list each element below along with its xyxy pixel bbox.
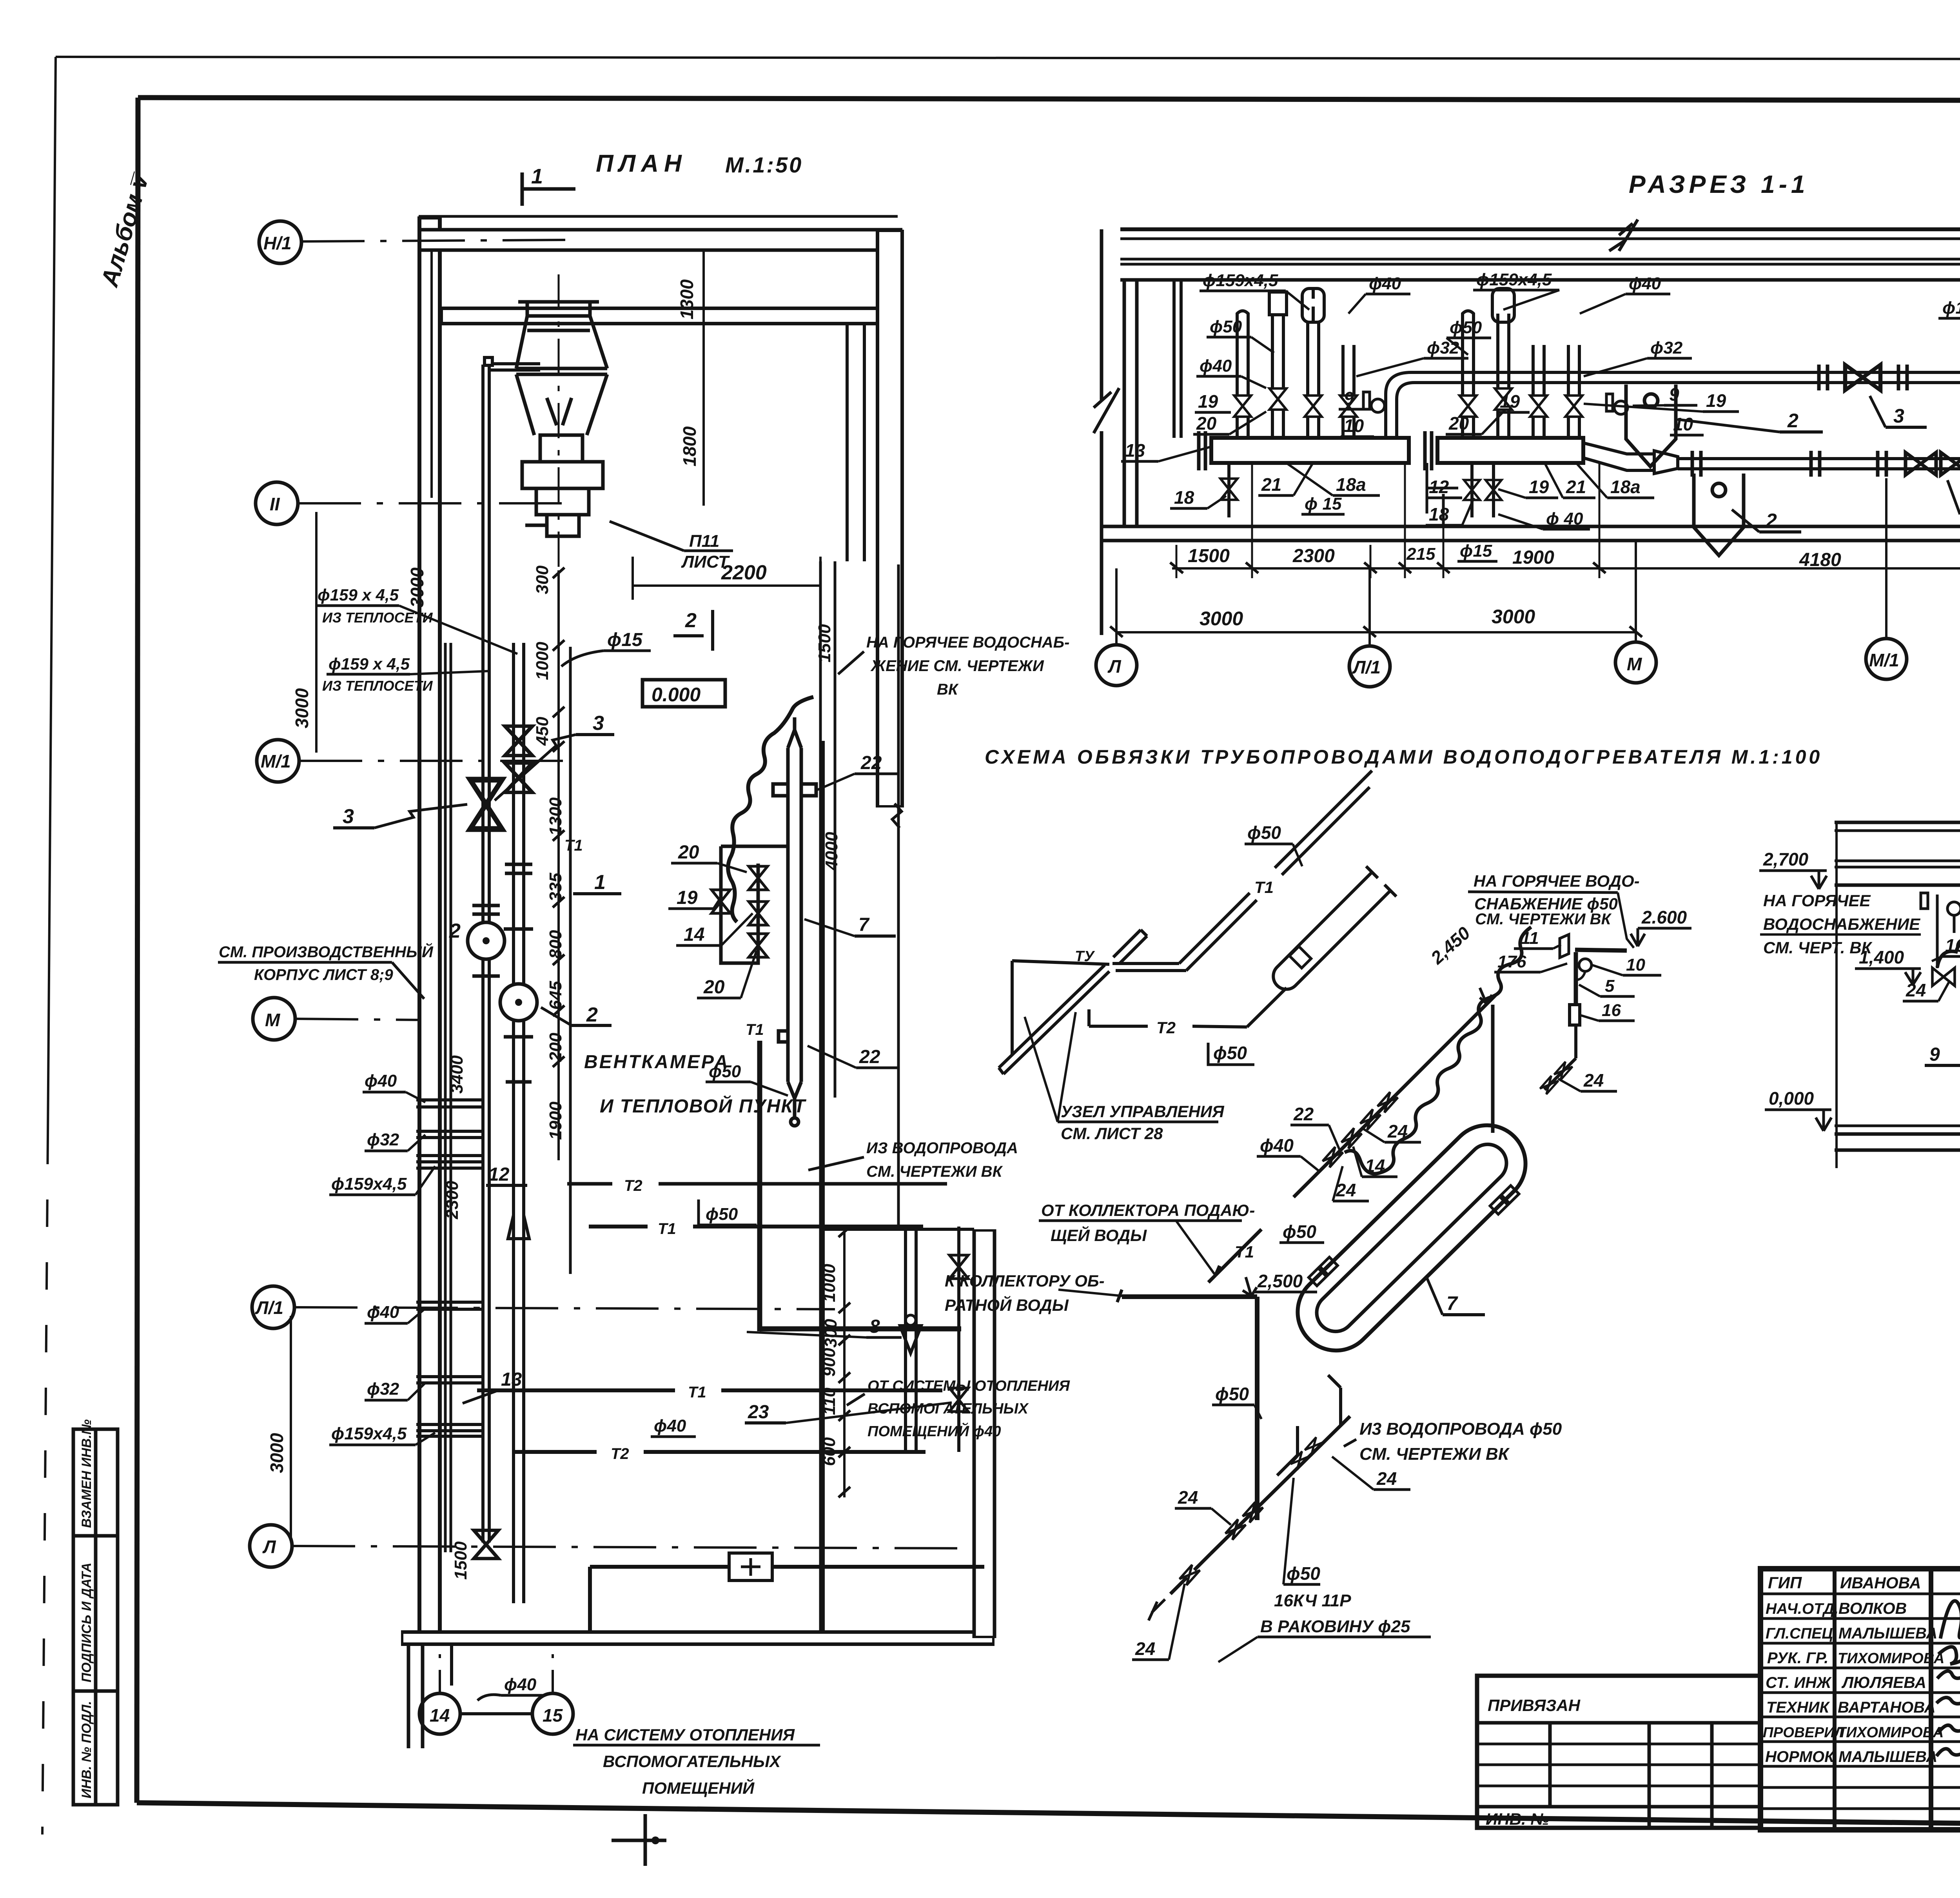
inner wall vertical [822, 741, 825, 1632]
horizontal to left [1112, 962, 1179, 965]
svg-text:13: 13 [501, 1369, 522, 1390]
svg-text:ϕ159 х4,5: ϕ159 х4,5 [1942, 298, 1960, 318]
svg-text:1000: 1000 [533, 642, 552, 680]
svg-text:19: 19 [1706, 390, 1726, 411]
svg-text:2,500: 2,500 [1257, 1271, 1303, 1291]
bottom right dim chain [843, 1232, 846, 1497]
dim chain along pipes [557, 570, 560, 1160]
section cut mark 1 (top) [522, 172, 575, 206]
wall top edge line [419, 215, 898, 218]
svg-text:22: 22 [1293, 1104, 1314, 1124]
svg-text:ϕ40: ϕ40 [1369, 274, 1401, 293]
wall connector line [823, 1228, 974, 1231]
svg-text:1900: 1900 [546, 1101, 565, 1140]
dim chain inside shaft [443, 1055, 470, 1580]
svg-text:И ТЕПЛОВОЙ ПУНКТ: И ТЕПЛОВОЙ ПУНКТ [600, 1095, 806, 1117]
svg-text:14: 14 [430, 1705, 450, 1726]
svg-text:РАЗРЕЗ 1-1: РАЗРЕЗ 1-1 [1629, 170, 1809, 198]
svg-text:450: 450 [533, 717, 552, 746]
wavy insulated pipe [1937, 900, 1960, 967]
svg-text:1300: 1300 [677, 279, 697, 319]
risers manifold1 [1237, 289, 1354, 438]
svg-text:10: 10 [1344, 416, 1364, 436]
heater item 7 (stadium) [1278, 1105, 1545, 1370]
svg-text:20: 20 [1448, 413, 1469, 434]
svg-text:ϕ 40: ϕ 40 [1546, 509, 1583, 528]
svg-text:ЛЮЛЯЕВА: ЛЮЛЯЕВА [1841, 1673, 1926, 1691]
outer left dashed lower [42, 1137, 48, 1834]
svg-text:НА СИСТЕМУ ОТОПЛЕНИЯ: НА СИСТЕМУ ОТОПЛЕНИЯ [575, 1726, 795, 1744]
svg-text:Т1: Т1 [1235, 1243, 1254, 1261]
svg-text:19: 19 [1529, 477, 1549, 497]
svg-text:ВАРТАНОВА: ВАРТАНОВА [1838, 1699, 1935, 1716]
svg-text:ϕ40: ϕ40 [1260, 1135, 1294, 1156]
svg-text:24: 24 [1178, 1487, 1198, 1508]
svg-text:600: 600 [820, 1437, 839, 1466]
svg-text:НОРМОК: НОРМОК [1765, 1748, 1835, 1766]
svg-text:18: 18 [1174, 487, 1194, 508]
svg-text:1300: 1300 [546, 797, 565, 836]
svg-text:ϕ40: ϕ40 [654, 1416, 686, 1435]
svg-text:ЩЕЙ ВОДЫ: ЩЕЙ ВОДЫ [1051, 1225, 1147, 1245]
svg-text:СНАБЖЕНИЕ ϕ50: СНАБЖЕНИЕ ϕ50 [1474, 895, 1618, 913]
outer thin border left [48, 57, 56, 1137]
svg-text:3: 3 [1893, 405, 1904, 427]
svg-text:ϕ159 х 4,5: ϕ159 х 4,5 [328, 655, 410, 673]
left column pair [1123, 280, 1126, 526]
svg-text:3000: 3000 [1200, 608, 1243, 630]
signatures scribbles [1936, 1587, 1960, 1760]
svg-text:ИВАНОВА: ИВАНОВА [1840, 1574, 1921, 1592]
svg-text:Т2: Т2 [624, 1177, 642, 1194]
svg-text:ϕ159х4,5: ϕ159х4,5 [331, 1424, 407, 1443]
svg-text:ГИП: ГИП [1768, 1573, 1802, 1592]
valve lower on pair A [474, 1530, 498, 1559]
svg-text:19: 19 [1500, 391, 1520, 412]
svg-text:24: 24 [1376, 1468, 1397, 1489]
svg-text:СМ. ЛИСТ 28: СМ. ЛИСТ 28 [1061, 1124, 1163, 1143]
svg-text:16: 16 [1602, 1001, 1621, 1020]
svg-text:М.1:50: М.1:50 [725, 152, 803, 177]
svg-text:СМ. ЧЕРТЕЖИ ВК: СМ. ЧЕРТЕЖИ ВК [1359, 1444, 1510, 1464]
svg-text:Л: Л [262, 1537, 276, 1557]
svg-text:НА ГОРЯЧЕЕ ВОДО-: НА ГОРЯЧЕЕ ВОДО- [1474, 872, 1640, 890]
valves pair on B [505, 726, 532, 756]
gauge left [1921, 893, 1928, 909]
bottom section flag [644, 1814, 647, 1866]
svg-text:0.000: 0.000 [652, 684, 701, 706]
svg-text:18а: 18а [1610, 477, 1641, 497]
heater column (plan item 7) [773, 717, 816, 1126]
floor lines [1835, 1125, 1960, 1127]
svg-text:ϕ159х4,5: ϕ159х4,5 [1476, 270, 1552, 289]
svg-text:ВСПОМОГАТЕЛЬНЫХ: ВСПОМОГАТЕЛЬНЫХ [867, 1401, 1029, 1417]
svg-text:24: 24 [1387, 1121, 1408, 1141]
branch to vodoprovod [1277, 1375, 1341, 1475]
left rotated stamp table [73, 1429, 118, 1805]
svg-text:14: 14 [1365, 1156, 1385, 1176]
fan unit centerline [558, 274, 560, 588]
svg-text:24: 24 [1135, 1639, 1155, 1659]
svg-text:18: 18 [1429, 504, 1449, 524]
svg-text:М/1: М/1 [261, 751, 291, 771]
svg-text:20: 20 [678, 842, 699, 863]
small box on T2 bottom [729, 1553, 772, 1580]
gauge item 10 [1579, 959, 1592, 971]
fan feed pipe elbow [485, 357, 540, 370]
svg-text:0,000: 0,000 [1769, 1088, 1814, 1109]
branch stubs upper cluster [416, 1100, 483, 1168]
svg-text:1900: 1900 [1512, 547, 1554, 568]
T2 line [1087, 1009, 1091, 1026]
left wall lower stubs [407, 1644, 410, 1748]
hairpin loop [1273, 872, 1390, 989]
svg-text:ϕ32: ϕ32 [367, 1130, 399, 1149]
left edge wall [1100, 229, 1103, 400]
extension verticals [1835, 822, 1838, 1168]
svg-text:1500: 1500 [1188, 546, 1230, 566]
wall right upper (double) [876, 230, 904, 807]
svg-text:Т1: Т1 [746, 1021, 764, 1038]
extension verticals dim1 [1176, 463, 1599, 578]
svg-text:2: 2 [586, 1003, 598, 1026]
svg-text:1: 1 [594, 871, 606, 894]
svg-text:24: 24 [1583, 1070, 1604, 1091]
lower cone fitting on B [508, 1215, 529, 1239]
svg-text:ОТ КОЛЛЕКТОРА ПОДАЮ-: ОТ КОЛЛЕКТОРА ПОДАЮ- [1041, 1201, 1255, 1219]
svg-text:2: 2 [1787, 410, 1798, 432]
big wavy scan curve [1345, 927, 1531, 1174]
svg-text:3: 3 [343, 805, 354, 828]
svg-text:645: 645 [546, 981, 565, 1010]
funnel item 8 [906, 1315, 916, 1325]
svg-text:ИНВ. №: ИНВ. № [1486, 1810, 1549, 1828]
svg-text:Л: Л [1107, 656, 1122, 677]
fan dims right [702, 251, 705, 506]
svg-text:П11: П11 [689, 532, 719, 551]
wall left (double) [417, 216, 442, 1644]
svg-text:9: 9 [1344, 388, 1354, 408]
svg-text:РАТНОЙ ВОДЫ: РАТНОЙ ВОДЫ [945, 1295, 1069, 1314]
svg-text:ϕ15: ϕ15 [607, 630, 643, 650]
svg-text:ϕ32: ϕ32 [1427, 338, 1459, 357]
svg-text:ϕ40: ϕ40 [1200, 356, 1232, 376]
svg-text:2: 2 [685, 609, 697, 632]
lower-left tail [1165, 1553, 1211, 1599]
pump 1 [468, 922, 505, 959]
return header: horizontal + vertical drop [1122, 1294, 1257, 1299]
svg-text:19: 19 [1198, 391, 1218, 412]
drain manifold2 [1470, 463, 1474, 517]
svg-text:ТУ: ТУ [1075, 948, 1095, 965]
svg-text:215: 215 [1406, 544, 1436, 564]
svg-text:Т2: Т2 [611, 1445, 629, 1463]
flanges on pipes [472, 864, 533, 1082]
svg-text:РУК. ГР.: РУК. ГР. [1767, 1649, 1828, 1667]
svg-text:16: 16 [1945, 935, 1960, 956]
svg-text:ϕ159х4,5: ϕ159х4,5 [331, 1174, 407, 1194]
left wall stub [1172, 280, 1176, 438]
svg-text:ϕ50: ϕ50 [1287, 1563, 1320, 1584]
vertical risers right room [904, 1229, 907, 1452]
svg-text:СМ. ЧЕРТЕЖИ ВК: СМ. ЧЕРТЕЖИ ВК [866, 1163, 1003, 1180]
svg-text:СМ. ПРОИЗВОДСТВЕННЫЙ: СМ. ПРОИЗВОДСТВЕННЫЙ [219, 942, 434, 961]
svg-text:МАЛЫШЕВА: МАЛЫШЕВА [1838, 1748, 1937, 1766]
svg-text:2: 2 [1766, 510, 1777, 532]
svg-text:20: 20 [1196, 413, 1217, 434]
svg-text:ГЛ.СПЕЦ.: ГЛ.СПЕЦ. [1766, 1625, 1837, 1642]
axis circle L [250, 1525, 292, 1567]
svg-text:ϕ50: ϕ50 [709, 1062, 741, 1081]
svg-text:СТ. ИНЖ: СТ. ИНЖ [1766, 1674, 1832, 1691]
svg-text:ϕ50: ϕ50 [706, 1205, 738, 1224]
svg-text:2: 2 [449, 920, 461, 942]
svg-text:15: 15 [543, 1705, 563, 1726]
svg-text:НАЧ.ОТД.: НАЧ.ОТД. [1766, 1600, 1838, 1617]
svg-text:КОРПУС ЛИСТ 8;9: КОРПУС ЛИСТ 8;9 [254, 966, 393, 983]
svg-text:ПРОВЕРИЛ: ПРОВЕРИЛ [1763, 1724, 1845, 1740]
svg-text:ПОДПИСЬ И ДАТА: ПОДПИСЬ И ДАТА [79, 1562, 94, 1682]
svg-text:3400: 3400 [447, 1055, 466, 1094]
svg-text:7: 7 [1446, 1292, 1458, 1314]
svg-text:ВЕНТКАМЕРА: ВЕНТКАМЕРА [584, 1052, 730, 1072]
svg-text:ϕ32: ϕ32 [367, 1379, 399, 1399]
svg-text:Н/1: Н/1 [263, 233, 292, 253]
svg-text:ϕ50: ϕ50 [1210, 317, 1242, 336]
svg-text:4180: 4180 [1799, 550, 1841, 570]
dim tick slashes [553, 568, 850, 1497]
svg-text:12: 12 [1429, 477, 1449, 497]
svg-text:Т1: Т1 [564, 837, 583, 854]
svg-text:М: М [1627, 654, 1642, 674]
svg-text:ПЛАН: ПЛАН [596, 150, 687, 177]
svg-text:ЛИСТ: ЛИСТ [681, 552, 730, 572]
svg-text:1: 1 [531, 165, 543, 188]
svg-text:ИНВ. № ПОДЛ.: ИНВ. № ПОДЛ. [79, 1701, 94, 1798]
wall mid under fan (double) [441, 307, 878, 325]
lower diagonal run [1211, 1416, 1350, 1553]
svg-text:2,700: 2,700 [1763, 849, 1809, 869]
svg-text:Т1: Т1 [658, 1220, 676, 1238]
floor lines [1101, 525, 1960, 528]
svg-text:3000: 3000 [267, 1433, 287, 1473]
privyazan table [1477, 1676, 1760, 1828]
vertical pipe pair B [512, 643, 515, 984]
svg-text:22: 22 [859, 1047, 880, 1067]
signature columns [1833, 1569, 1837, 1830]
svg-text:900: 900 [820, 1348, 839, 1377]
outer thin border top [56, 57, 1960, 60]
svg-text:ϕ40: ϕ40 [1629, 274, 1661, 293]
beam lines [1835, 822, 1960, 885]
main thick frame [138, 98, 1960, 101]
svg-text:ВК: ВК [937, 681, 959, 698]
dim row 1 [1172, 567, 1960, 570]
valves lower pair [1906, 452, 1936, 475]
hot water branch piping [1575, 950, 1627, 951]
drain manifold1 [1227, 463, 1230, 517]
svg-text:ПРИВЯЗАН: ПРИВЯЗАН [1488, 1696, 1581, 1715]
svg-text:ϕ50: ϕ50 [1213, 1043, 1247, 1063]
svg-text:И3 ВОДОПРОВОДА ϕ50: И3 ВОДОПРОВОДА ϕ50 [1359, 1419, 1562, 1439]
svg-text:ПОМЕЩЕНИЙ: ПОМЕЩЕНИЙ [642, 1778, 755, 1797]
axis circle M/1 [257, 740, 299, 782]
svg-text:ВСПОМОГАТЕЛЬНЫХ: ВСПОМОГАТЕЛЬНЫХ [603, 1752, 782, 1771]
svg-text:УЗЕЛ УПРАВЛЕНИЯ: УЗЕЛ УПРАВЛЕНИЯ [1061, 1102, 1225, 1121]
svg-text:Л/1: Л/1 [1352, 657, 1381, 677]
svg-text:ПОМЕЩЕНИЙ ϕ40: ПОМЕЩЕНИЙ ϕ40 [867, 1422, 1001, 1440]
fan unit (cyclone) [516, 302, 607, 536]
svg-text:М: М [265, 1010, 281, 1030]
T1 main diagonal (double line) [1112, 771, 1372, 971]
left panel of uzel [999, 930, 1147, 1074]
svg-text:НА ГОРЯЧЕЕ ВОДОСНАБ-: НА ГОРЯЧЕЕ ВОДОСНАБ- [866, 634, 1069, 651]
svg-text:ϕ50: ϕ50 [1283, 1221, 1316, 1242]
svg-text:СХЕМА ОБВЯЗКИ ТРУБОПРОВОДА: СХЕМА ОБВЯЗКИ ТРУБОПРОВОДАМИ ВОДОПОДОГРЕ… [985, 746, 1822, 768]
flanges upper [1819, 365, 1960, 390]
0.000 box [642, 680, 725, 707]
svg-text:ϕ159х4,5: ϕ159х4,5 [1203, 271, 1278, 290]
svg-text:ϕ40: ϕ40 [504, 1675, 537, 1694]
svg-text:М/1: М/1 [1869, 650, 1899, 670]
flag item 11 [1560, 934, 1569, 958]
bypass assembly [721, 846, 789, 963]
svg-text:24: 24 [1906, 980, 1926, 1000]
svg-text:ВЗАМЕН ИНВ.№: ВЗАМЕН ИНВ.№ [79, 1419, 94, 1528]
svg-text:ϕ40: ϕ40 [365, 1071, 397, 1091]
svg-text:3000: 3000 [292, 688, 312, 728]
svg-text:8: 8 [869, 1316, 880, 1337]
node circles 14 15 [419, 1693, 460, 1734]
svg-text:2300: 2300 [1292, 546, 1335, 566]
phi15 drain mid [1442, 494, 1445, 525]
valve big on pair A [470, 780, 502, 829]
svg-text:В РАКОВИНУ ϕ25: В РАКОВИНУ ϕ25 [1260, 1617, 1410, 1636]
vent chamber shaft walls [846, 324, 849, 561]
svg-text:18а: 18а [1336, 474, 1366, 495]
gauge manifold1 [1371, 399, 1385, 412]
svg-text:II: II [270, 494, 280, 514]
svg-text:21: 21 [1566, 477, 1586, 497]
axis circles section 1-1 [1096, 645, 1137, 686]
axis circle L/1 [252, 1286, 294, 1328]
svg-text:10: 10 [1626, 955, 1645, 974]
svg-text:19: 19 [677, 887, 698, 908]
svg-text:5: 5 [1605, 976, 1615, 996]
T1 vertical heavy [757, 1041, 762, 1331]
dim row 2 [1116, 631, 1636, 633]
svg-text:ВОДОСНАБЖЕНИЕ: ВОДОСНАБЖЕНИЕ [1763, 915, 1921, 933]
svg-text:ϕ 15: ϕ 15 [1305, 494, 1342, 514]
svg-text:20: 20 [703, 977, 725, 998]
svg-text:10: 10 [1673, 414, 1693, 434]
svg-text:300: 300 [533, 565, 552, 594]
axis circle H/1 [259, 221, 301, 263]
svg-text:12: 12 [488, 1164, 510, 1185]
svg-text:1800: 1800 [679, 426, 700, 466]
svg-text:СМ. ЧЕРТ. ВК: СМ. ЧЕРТ. ВК [1763, 938, 1873, 957]
svg-text:Т1: Т1 [1254, 878, 1274, 896]
svg-text:3000: 3000 [407, 567, 427, 608]
svg-text:22: 22 [860, 753, 882, 773]
svg-text:16КЧ 11Р: 16КЧ 11Р [1274, 1591, 1351, 1610]
svg-text:К КОЛЛЕКТОРУ ОБ-: К КОЛЛЕКТОРУ ОБ- [945, 1272, 1105, 1290]
flanges lower [1692, 451, 1886, 477]
signature rows [1760, 1594, 1960, 1809]
svg-text:2.600: 2.600 [1641, 907, 1687, 927]
svg-text:ϕ50: ϕ50 [1450, 318, 1482, 337]
title block outer [1760, 1569, 1960, 1830]
beam break mark [1609, 220, 1638, 251]
risers manifold2 [1463, 289, 1579, 438]
axis circle M [253, 998, 295, 1040]
gauge manifold2 [1614, 401, 1628, 414]
svg-text:9: 9 [1669, 384, 1679, 405]
wall top (double) [419, 228, 902, 252]
svg-text:ТЕХНИК: ТЕХНИК [1766, 1699, 1830, 1716]
pot item2 lower [1694, 474, 1744, 555]
T1/T2 horizontals in room [589, 1225, 648, 1228]
riser vertical to diagonal [1491, 1005, 1495, 1133]
manifold 1 [1211, 438, 1409, 463]
svg-text:СМ. ЧЕРТЕЖИ ВК: СМ. ЧЕРТЕЖИ ВК [1475, 911, 1612, 928]
svg-text:Т1: Т1 [688, 1384, 706, 1401]
svg-text:800: 800 [546, 930, 565, 959]
svg-text:Л/1: Л/1 [255, 1297, 283, 1318]
svg-text:1500: 1500 [815, 624, 834, 662]
roof beam lines [1120, 229, 1960, 280]
valve upper [1845, 365, 1880, 390]
svg-text:МАЛЫШЕВА: МАЛЫШЕВА [1838, 1625, 1937, 1642]
wall bottom (double) [401, 1630, 995, 1646]
elbow riser from manifold1 to upper pipe [1386, 372, 1414, 438]
svg-text:23: 23 [748, 1402, 769, 1423]
branch stubs lower cluster [416, 1302, 483, 1436]
manifold 2 [1437, 438, 1583, 463]
svg-text:ϕ50: ϕ50 [1247, 822, 1281, 843]
svg-text:ВОЛКОВ: ВОЛКОВ [1838, 1599, 1907, 1617]
svg-text:3000: 3000 [1492, 606, 1535, 628]
svg-text:ϕ15: ϕ15 [1460, 541, 1492, 561]
svg-text:13: 13 [1125, 440, 1145, 461]
svg-text:21: 21 [1261, 474, 1281, 495]
reducer manifold2 to lower pipe [1583, 443, 1654, 470]
axis circle II [256, 482, 298, 524]
inter-axis dims [430, 251, 433, 498]
svg-text:ТИХОМИРОВА: ТИХОМИРОВА [1837, 1724, 1944, 1741]
pump 2 [500, 984, 537, 1021]
svg-text:ИЗ ТЕПЛОСЕТИ: ИЗ ТЕПЛОСЕТИ [322, 678, 433, 694]
lower pipe run [1678, 457, 1960, 460]
svg-text:ϕ40: ϕ40 [367, 1303, 399, 1322]
wavy scan curve [728, 697, 813, 922]
svg-text:2300: 2300 [443, 1181, 462, 1219]
svg-text:ϕ32: ϕ32 [1650, 338, 1683, 357]
vertical pipe pair A [481, 365, 485, 923]
svg-text:3: 3 [593, 712, 604, 735]
svg-text:9: 9 [1929, 1044, 1940, 1065]
svg-text:ЖЕНИЕ СМ. ЧЕРТЕЖИ: ЖЕНИЕ СМ. ЧЕРТЕЖИ [870, 657, 1044, 675]
svg-text:ИЗ ВОДОПРОВОДА: ИЗ ВОДОПРОВОДА [866, 1140, 1018, 1157]
pot item2 upper [1626, 385, 1676, 466]
inlet valve [1933, 968, 1955, 986]
wall right lower (double) [973, 1229, 996, 1638]
svg-text:Т2: Т2 [1156, 1018, 1176, 1037]
svg-text:4000: 4000 [822, 832, 841, 871]
svg-text:НА ГОРЯЧЕЕ: НА ГОРЯЧЕЕ [1763, 891, 1871, 910]
svg-text:ТИХОМИРОВА: ТИХОМИРОВА [1838, 1650, 1944, 1667]
T1 riser diagonal with valves [1204, 995, 1495, 1287]
